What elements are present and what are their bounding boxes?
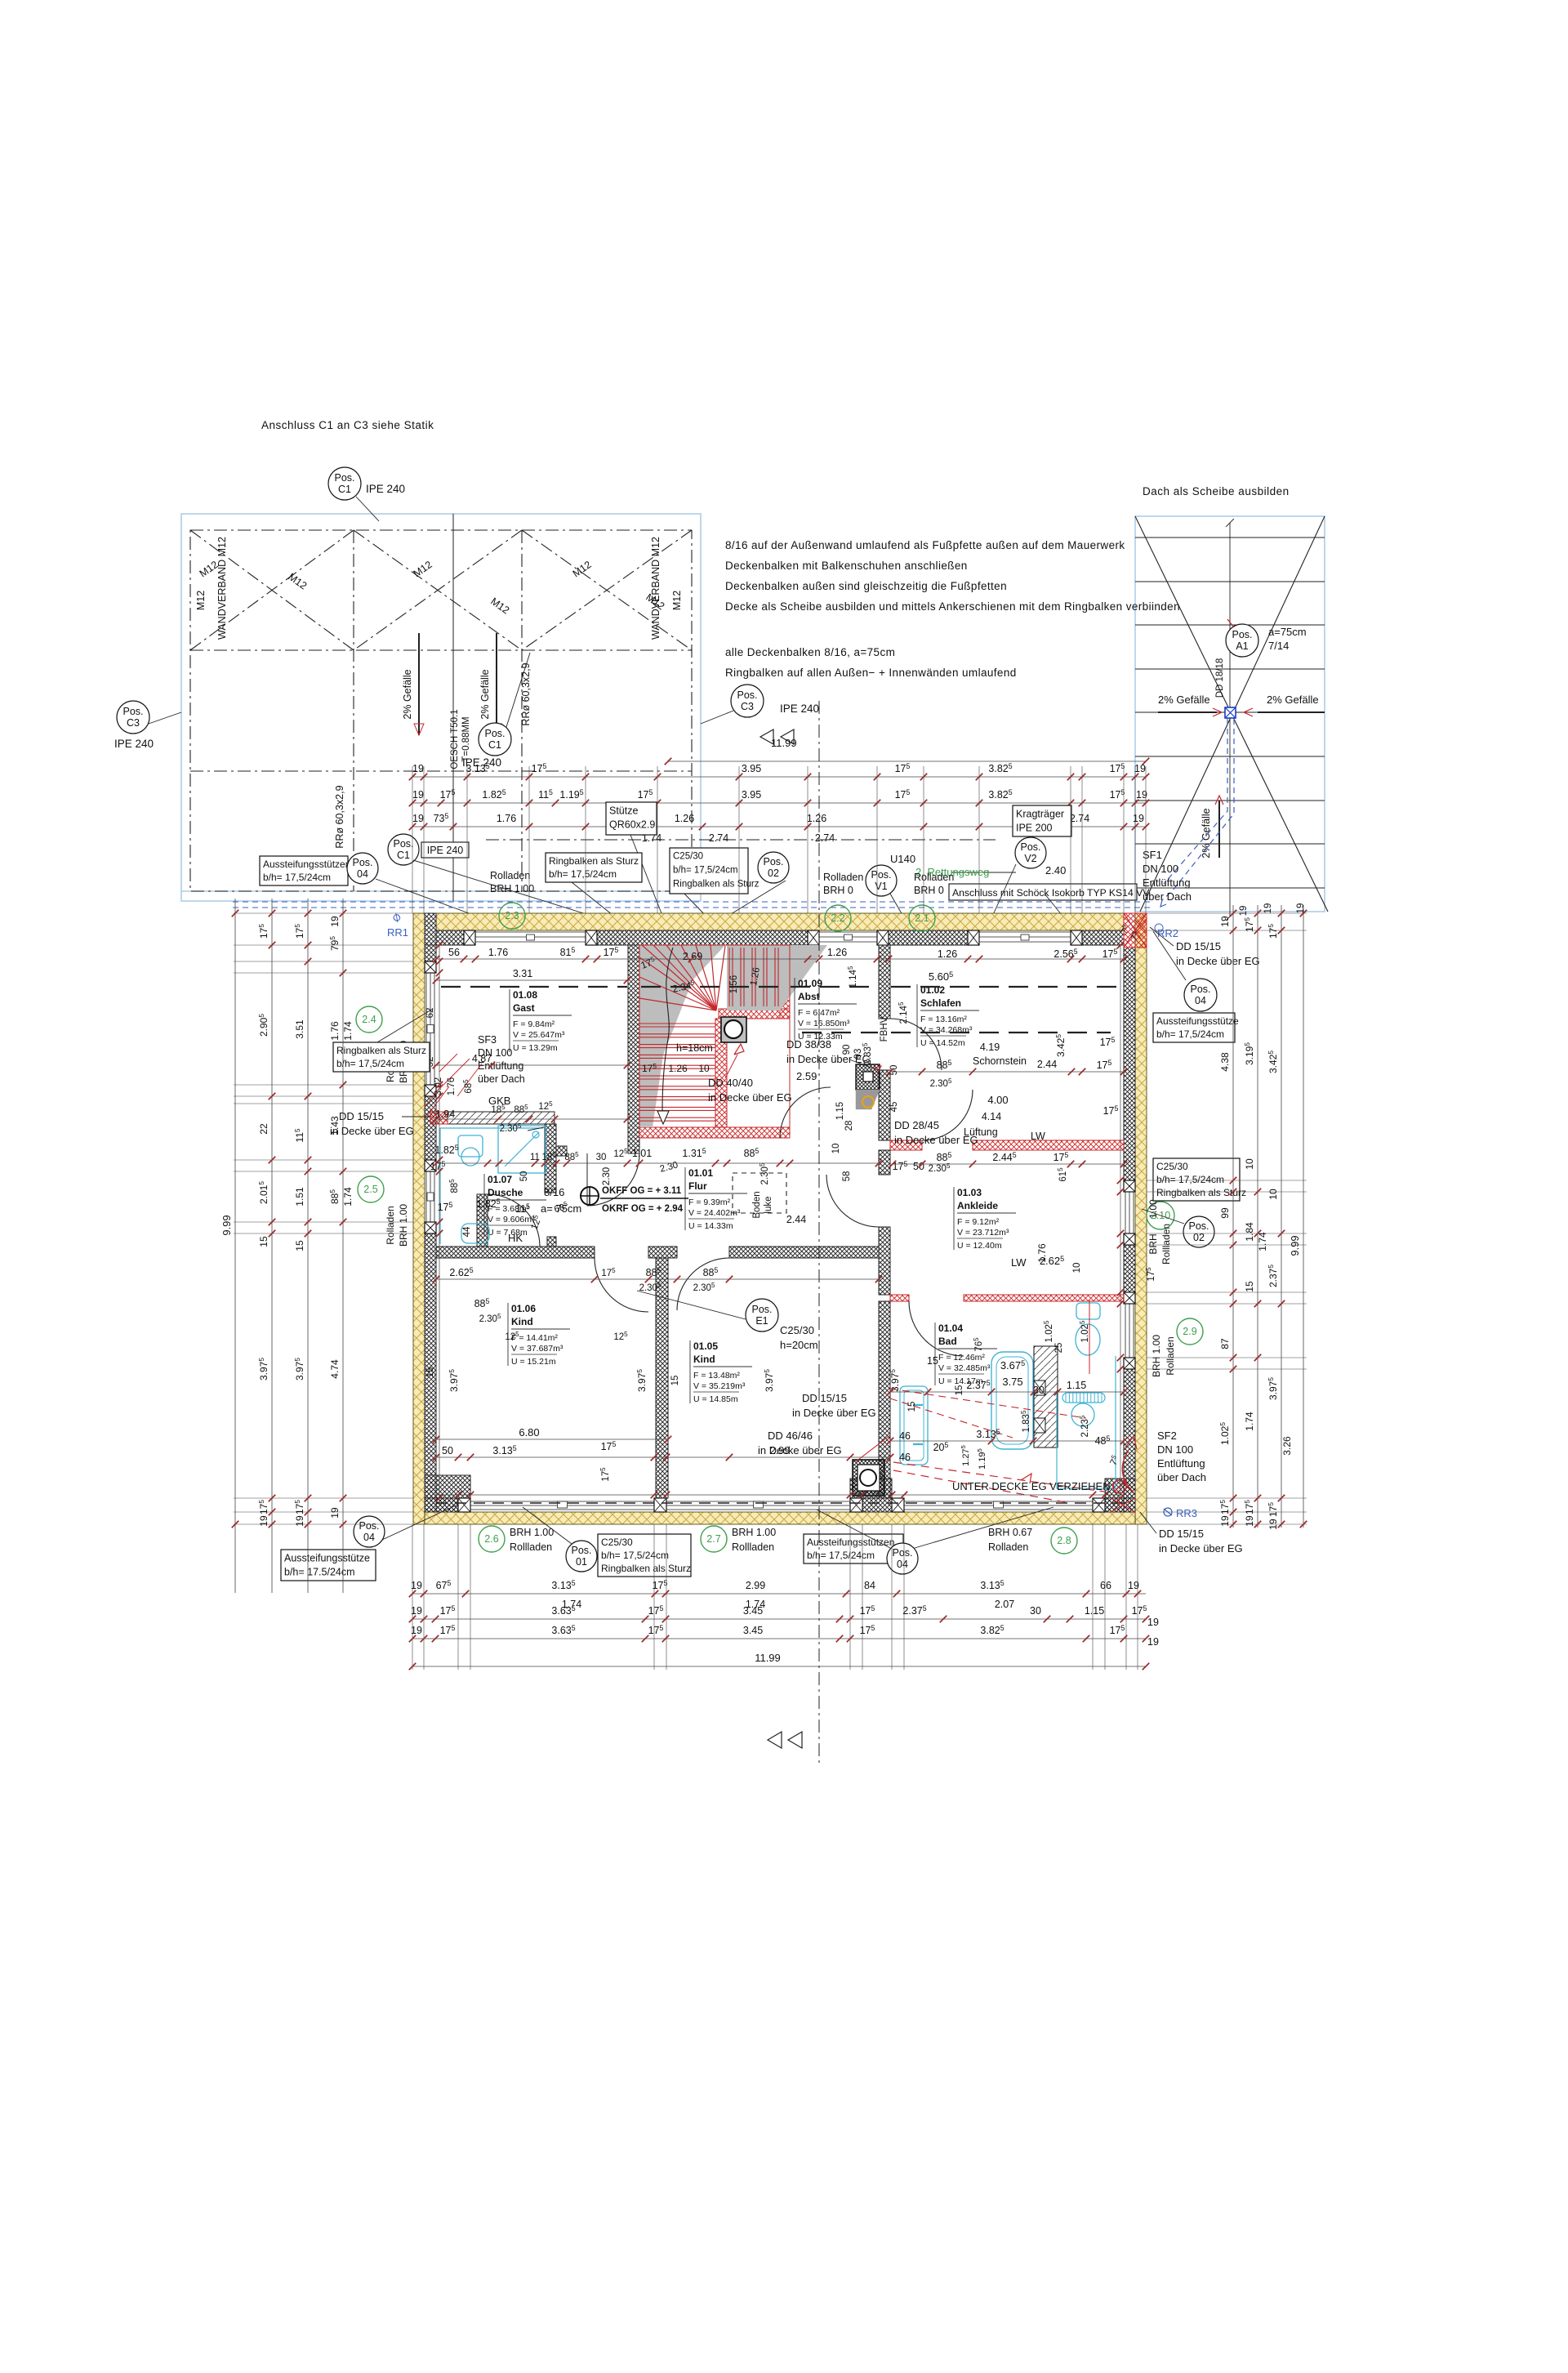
svg-text:OKRF OG = + 2.94: OKRF OG = + 2.94 — [602, 1204, 684, 1214]
svg-text:1.00: 1.00 — [1147, 1199, 1159, 1219]
extension lines top — [412, 766, 413, 913]
svg-text:1.76: 1.76 — [497, 813, 516, 824]
Kragtraeger box — [1013, 805, 1071, 836]
top wall small red corner marks — [1135, 920, 1147, 933]
svg-text:alle Deckenbalken 8/16, a=75cm: alle Deckenbalken 8/16, a=75cm — [725, 646, 895, 658]
svg-text:F = 9.12m²: F = 9.12m² — [957, 1217, 1000, 1227]
wall Bad/Kind vertical — [879, 1301, 890, 1498]
Dusche washbasin — [461, 1224, 489, 1243]
bottom dim chains — [412, 1593, 1146, 1595]
extension lines bottom — [412, 1524, 413, 1670]
svg-text:19: 19 — [411, 1625, 422, 1636]
svg-text:BRH 1.00: BRH 1.00 — [732, 1527, 776, 1538]
svg-text:Aussteifungsstützen: Aussteifungsstützen — [807, 1537, 894, 1548]
svg-text:Boden: Boden — [752, 1191, 762, 1218]
svg-text:19: 19 — [411, 1605, 422, 1617]
chimney Schornstein — [856, 1064, 880, 1090]
svg-text:15: 15 — [425, 1367, 435, 1378]
svg-text:Aussteifungsstütze: Aussteifungsstütze — [1156, 1015, 1239, 1027]
svg-text:DD 38/38: DD 38/38 — [786, 1038, 831, 1050]
svg-text:V = 35.219m³: V = 35.219m³ — [693, 1381, 746, 1391]
svg-text:2.74: 2.74 — [1070, 813, 1089, 824]
svg-text:Pos.: Pos. — [763, 856, 783, 868]
SF2 red riser — [1122, 1450, 1134, 1492]
red DD block left wall — [430, 1112, 448, 1124]
Bodenluke dashed — [733, 1173, 786, 1213]
svg-text:DN 100: DN 100 — [1143, 863, 1178, 875]
interior dim line: top wall inner — [436, 958, 1124, 960]
OKFF marker — [581, 1187, 599, 1205]
svg-text:Ringbalken als Sturz: Ringbalken als Sturz — [336, 1045, 426, 1056]
svg-text:DD 46/46: DD 46/46 — [768, 1430, 813, 1442]
svg-text:8/16 auf der Außenwand umlaufe: 8/16 auf der Außenwand umlaufend als Fuß… — [725, 539, 1125, 551]
svg-text:87: 87 — [1219, 1338, 1231, 1349]
wall Abst/Schlafen — [879, 945, 890, 1019]
svg-text:11.99: 11.99 — [771, 737, 797, 749]
left boxes row — [260, 856, 348, 885]
svg-text:Pos.: Pos. — [892, 1547, 912, 1559]
svg-text:2.30: 2.30 — [602, 1167, 612, 1185]
svg-text:WANDVERBAND M12: WANDVERBAND M12 — [650, 537, 661, 640]
svg-text:2% Gefälle: 2% Gefälle — [1158, 694, 1210, 706]
interior dim line: Dusche/Flur row — [436, 1162, 879, 1164]
gefaelle arrows left roof — [418, 633, 420, 735]
svg-text:in Decke über EG: in Decke über EG — [330, 1125, 414, 1137]
svg-text:01.06: 01.06 — [511, 1303, 536, 1314]
svg-text:F = 9.84m²: F = 9.84m² — [513, 1019, 555, 1029]
svg-text:QR60x2.9: QR60x2.9 — [609, 819, 655, 831]
svg-text:Kragträger: Kragträger — [1016, 809, 1064, 820]
svg-text:h=18cm: h=18cm — [676, 1042, 713, 1054]
left wall masonry segments — [425, 945, 436, 961]
interior vertical dim lines near walls — [439, 945, 440, 1498]
Pos C1 top circle — [328, 467, 361, 500]
right roof light blue frame — [1135, 516, 1325, 912]
svg-text:h=20cm: h=20cm — [780, 1339, 818, 1351]
bottom wall interior dashed line — [436, 1502, 1124, 1504]
svg-text:2.6: 2.6 — [484, 1533, 498, 1545]
right roof centre line — [1229, 523, 1231, 917]
svg-text:U = 13.29m: U = 13.29m — [513, 1043, 558, 1053]
svg-text:19: 19 — [1267, 1519, 1279, 1530]
svg-text:Deckenbalken außen sind gleisc: Deckenbalken außen sind gleischzeitig di… — [725, 580, 1007, 592]
stair grey landing polygons — [639, 945, 725, 1127]
svg-text:22: 22 — [258, 1123, 269, 1135]
svg-text:BRH 1.00: BRH 1.00 — [398, 1204, 409, 1247]
section marker top — [760, 729, 773, 744]
svg-text:3.45: 3.45 — [743, 1605, 763, 1617]
svg-text:56: 56 — [448, 947, 460, 958]
svg-text:3.26: 3.26 — [1281, 1436, 1293, 1456]
exterior wall: bottom insulation band — [425, 1512, 1135, 1524]
DD46/46 drain square — [853, 1460, 884, 1496]
svg-text:2.44: 2.44 — [786, 1214, 806, 1225]
svg-text:DD 18/18: DD 18/18 — [1215, 658, 1225, 698]
svg-text:F = 9.39m²: F = 9.39m² — [688, 1198, 731, 1207]
wandverband X bracing diagonals M12 — [190, 530, 354, 650]
stair right wall (red) — [780, 945, 790, 1019]
right dim chains — [1232, 905, 1234, 1528]
svg-text:2.2: 2.2 — [831, 912, 844, 924]
stair outline red — [639, 945, 790, 1138]
svg-text:2.1: 2.1 — [915, 912, 929, 924]
svg-text:SF1: SF1 — [1143, 849, 1162, 861]
chimney shadow — [856, 1090, 880, 1109]
dash-dot line under top dims — [486, 839, 996, 841]
svg-text:Rolladen: Rolladen — [988, 1541, 1028, 1553]
svg-text:19: 19 — [1128, 1580, 1139, 1591]
svg-text:4.14: 4.14 — [982, 1111, 1001, 1122]
svg-text:Pos.: Pos. — [122, 706, 143, 717]
svg-text:IPE 240: IPE 240 — [114, 738, 154, 750]
svg-text:28: 28 — [844, 1121, 854, 1131]
svg-text:V = 37.687m³: V = 37.687m³ — [511, 1344, 563, 1354]
door arc top (Abst entry) — [667, 945, 729, 1007]
Ringbalken als Sturz box (top mid) — [546, 853, 642, 882]
svg-text:SF3: SF3 — [478, 1034, 497, 1046]
svg-text:RRø 60,3x2,9: RRø 60,3x2,9 — [334, 785, 345, 848]
top dim row 1 — [412, 776, 1146, 778]
svg-text:BRH 0: BRH 0 — [823, 885, 853, 896]
svg-text:15: 15 — [955, 1385, 964, 1396]
window jambs left wall — [425, 961, 436, 973]
window glazing top wall — [475, 931, 586, 933]
svg-text:Ankleide: Ankleide — [957, 1200, 998, 1211]
svg-text:10: 10 — [1072, 1263, 1082, 1273]
wall Schlafen/Ankleide (red LW) — [890, 1140, 922, 1150]
svg-text:15: 15 — [927, 1355, 938, 1367]
svg-text:b/h= 17,5/24cm: b/h= 17,5/24cm — [263, 872, 331, 883]
exterior wall: right insulation band — [1135, 913, 1147, 1524]
svg-text:über Dach: über Dach — [478, 1073, 525, 1085]
blue dashed drain riser SF1 — [1162, 719, 1234, 900]
svg-text:RR3: RR3 — [1176, 1507, 1197, 1519]
svg-text:Ringbalken als Sturz: Ringbalken als Sturz — [549, 855, 639, 867]
door arc Ankleide (wall E) — [826, 1175, 879, 1227]
Bad bathtub — [991, 1352, 1033, 1449]
svg-text:2.7: 2.7 — [706, 1533, 720, 1545]
svg-text:BRH: BRH — [1147, 1233, 1159, 1254]
stair upper run steps (red) — [728, 948, 730, 1006]
svg-text:4.87: 4.87 — [472, 1053, 492, 1064]
svg-text:93: 93 — [853, 1049, 863, 1059]
svg-text:3.45: 3.45 — [743, 1625, 763, 1636]
svg-text:2.59: 2.59 — [796, 1070, 817, 1082]
svg-text:01.04: 01.04 — [938, 1323, 963, 1334]
svg-text:15: 15 — [258, 1236, 269, 1247]
svg-text:6.80: 6.80 — [519, 1426, 539, 1439]
red dashed leaders Kind — [890, 1389, 1086, 1418]
svg-text:Bad: Bad — [938, 1336, 957, 1347]
svg-text:C25/30: C25/30 — [780, 1324, 814, 1336]
svg-text:Rolladen: Rolladen — [1165, 1336, 1176, 1375]
svg-text:02: 02 — [768, 868, 779, 879]
stair lower run steps (red) — [639, 1023, 715, 1024]
svg-text:RR2: RR2 — [1157, 927, 1178, 939]
svg-text:luke: luke — [764, 1196, 773, 1213]
left roof vertical grid dash-dot lines — [353, 530, 354, 891]
corner masonry blocks — [425, 1475, 470, 1512]
svg-text:über Dach: über Dach — [1143, 890, 1192, 903]
svg-text:b/h= 17,5/24cm: b/h= 17,5/24cm — [673, 866, 738, 876]
svg-text:19: 19 — [411, 1580, 422, 1591]
Pos A1 circle — [1226, 624, 1258, 657]
svg-text:90: 90 — [842, 1045, 852, 1055]
Pos C1 mid circle — [479, 723, 511, 756]
svg-text:11: 11 — [530, 1153, 540, 1162]
svg-text:19: 19 — [1263, 903, 1273, 914]
red seam left of lower stair run — [715, 1019, 727, 1127]
svg-text:19: 19 — [329, 916, 341, 927]
svg-text:C25/30: C25/30 — [673, 852, 703, 862]
Bad shower tray — [900, 1386, 928, 1465]
leaders top wall — [727, 881, 786, 917]
svg-text:C25/30: C25/30 — [601, 1537, 633, 1548]
svg-text:04: 04 — [357, 868, 368, 880]
svg-text:Pos.: Pos. — [1188, 1220, 1209, 1232]
window jambs top wall — [464, 930, 475, 945]
Bad partition stub hatched — [1034, 1346, 1058, 1447]
svg-text:Pos.: Pos. — [484, 728, 505, 739]
svg-text:Stütze: Stütze — [609, 805, 638, 817]
svg-text:Schornstein: Schornstein — [973, 1055, 1027, 1067]
orange ring — [862, 1096, 874, 1108]
svg-text:OKFF OG = + 3.11: OKFF OG = + 3.11 — [602, 1186, 682, 1196]
door arc Schlafen (from Flur) — [890, 1019, 942, 1070]
svg-text:19: 19 — [1296, 903, 1306, 914]
svg-text:C1: C1 — [397, 850, 410, 861]
svg-text:in Decke über EG: in Decke über EG — [1176, 955, 1260, 967]
svg-text:a=75cm: a=75cm — [1268, 626, 1307, 638]
svg-text:UNTER DECKE EG VERZIEHEN: UNTER DECKE EG VERZIEHEN — [952, 1480, 1111, 1492]
window glazing left wall — [425, 973, 427, 1085]
GKB wall above Dusche — [436, 1112, 555, 1124]
Anschluss Isokorb box — [949, 884, 1137, 900]
svg-text:2% Gefälle: 2% Gefälle — [1267, 694, 1319, 706]
top dim row 2 — [412, 802, 1146, 804]
svg-text:19: 19 — [412, 813, 424, 824]
section line vertical — [818, 701, 820, 1764]
svg-text:1.84: 1.84 — [1244, 1222, 1255, 1242]
svg-text:BRH 0.67: BRH 0.67 — [988, 1527, 1032, 1538]
svg-text:04: 04 — [897, 1559, 908, 1570]
interior dim line: Gast rows — [436, 979, 627, 981]
top wall masonry segments — [436, 930, 464, 945]
svg-text:Pos.: Pos. — [334, 472, 354, 484]
svg-text:1.26: 1.26 — [675, 813, 694, 824]
svg-text:3.51: 3.51 — [294, 1019, 305, 1039]
svg-text:01.01: 01.01 — [688, 1167, 713, 1179]
svg-text:2.5: 2.5 — [363, 1184, 377, 1195]
leaders SF3 — [439, 1054, 482, 1096]
interior dim line: Ankleide row — [893, 1163, 1124, 1165]
svg-text:E1: E1 — [755, 1315, 768, 1327]
Dusche right wall — [545, 1124, 556, 1193]
top dim row 3 — [412, 826, 1146, 827]
svg-text:Rollladen: Rollladen — [510, 1541, 552, 1553]
left roof bracing band bottom chord — [190, 649, 692, 651]
green window codes — [499, 903, 525, 929]
svg-text:19: 19 — [1239, 906, 1249, 917]
svg-text:V = 16.850m³: V = 16.850m³ — [798, 1019, 850, 1028]
svg-text:DD 15/15: DD 15/15 — [1159, 1528, 1204, 1540]
exterior wall: top insulation band — [436, 913, 1124, 930]
svg-text:19: 19 — [1134, 763, 1146, 774]
Pos E1 — [746, 1299, 778, 1331]
svg-text:19: 19 — [294, 1515, 305, 1527]
svg-text:DD 15/15: DD 15/15 — [1176, 940, 1221, 952]
svg-text:2.07: 2.07 — [995, 1599, 1014, 1610]
svg-text:V = 9.606m³: V = 9.606m³ — [488, 1215, 535, 1224]
svg-text:Pos.: Pos. — [359, 1520, 379, 1532]
svg-text:Rolladen: Rolladen — [385, 1206, 396, 1244]
dashed beam line y1208 — [441, 986, 627, 988]
svg-text:2.99: 2.99 — [746, 1580, 765, 1591]
Bad WC — [1076, 1303, 1100, 1319]
svg-text:DD 28/45: DD 28/45 — [894, 1119, 939, 1131]
svg-text:9.99: 9.99 — [220, 1215, 233, 1235]
svg-text:M12: M12 — [671, 591, 683, 610]
svg-text:1.15: 1.15 — [1067, 1380, 1086, 1391]
svg-text:in Decke über EG: in Decke über EG — [758, 1444, 842, 1456]
svg-text:V = 32.485m³: V = 32.485m³ — [938, 1363, 991, 1373]
svg-text:b/h= 17,5/24cm: b/h= 17,5/24cm — [549, 868, 617, 880]
svg-text:2% Gefälle: 2% Gefälle — [479, 669, 491, 719]
left roof mid horizontal dash-dot — [190, 770, 692, 772]
svg-text:Abst: Abst — [798, 991, 820, 1002]
svg-text:15: 15 — [294, 1240, 305, 1251]
svg-text:F = 13.16m²: F = 13.16m² — [920, 1015, 967, 1024]
Pos 02 circle + box (top) — [758, 852, 789, 883]
svg-text:U = 14.52m: U = 14.52m — [920, 1038, 965, 1048]
svg-text:2.3: 2.3 — [505, 910, 519, 921]
svg-text:2.74: 2.74 — [709, 832, 728, 844]
svg-text:19: 19 — [412, 763, 424, 774]
svg-text:1.74: 1.74 — [342, 1021, 354, 1041]
svg-text:04: 04 — [1195, 995, 1206, 1006]
svg-text:b/h= 17.5/24cm: b/h= 17.5/24cm — [284, 1567, 355, 1578]
left roof bracing field: outer light blue frame — [181, 514, 701, 901]
svg-text:BRH 1.00: BRH 1.00 — [490, 883, 534, 894]
svg-text:19: 19 — [329, 1507, 341, 1519]
Bad red dashed UNTER DECKE lines — [893, 1462, 1104, 1492]
svg-text:V1: V1 — [875, 881, 887, 892]
svg-text:DD 15/15: DD 15/15 — [802, 1392, 847, 1404]
interior dim line: mid row 1566 — [436, 1278, 879, 1280]
svg-text:V = 25.647m³: V = 25.647m³ — [513, 1030, 565, 1040]
svg-text:19: 19 — [1133, 813, 1144, 824]
left boxes: Ringbalken als Sturz — [333, 1042, 430, 1072]
svg-text:Rollladen: Rollladen — [732, 1541, 774, 1553]
svg-text:Deckenbalken mit Balkenschuhen: Deckenbalken mit Balkenschuhen anschließ… — [725, 560, 968, 572]
window glazing bottom wall — [470, 1501, 654, 1502]
svg-text:Pos.: Pos. — [1232, 629, 1252, 640]
svg-text:Rolladen: Rolladen — [914, 872, 954, 883]
svg-text:3.95: 3.95 — [742, 789, 761, 801]
Flur bottom wall segments — [436, 1247, 595, 1258]
svg-text:10: 10 — [1267, 1189, 1279, 1200]
svg-text:25: 25 — [1054, 1343, 1064, 1354]
red arrow near DD40/40 — [734, 1044, 744, 1055]
svg-text:8/16: 8/16 — [544, 1186, 564, 1198]
svg-text:1.94: 1.94 — [435, 1108, 455, 1120]
svg-text:C1: C1 — [338, 484, 351, 495]
svg-text:M12: M12 — [195, 591, 207, 610]
svg-text:V = 34.268m³: V = 34.268m³ — [920, 1025, 973, 1035]
svg-text:10: 10 — [1244, 1158, 1255, 1170]
C25/30 box right — [1153, 1158, 1240, 1201]
svg-text:4.74: 4.74 — [329, 1359, 341, 1379]
svg-text:Kind: Kind — [693, 1354, 715, 1365]
DD40/40 drain square — [721, 1017, 746, 1042]
roof drain DD 18/18 — [1225, 707, 1236, 718]
svg-text:84: 84 — [864, 1580, 875, 1591]
extension lines left — [234, 912, 413, 914]
svg-text:in Decke über EG: in Decke über EG — [792, 1407, 876, 1419]
svg-text:LW: LW — [1031, 1131, 1045, 1142]
svg-text:4.19: 4.19 — [980, 1042, 1000, 1053]
svg-text:Pos.: Pos. — [393, 838, 413, 850]
svg-text:IPE 200: IPE 200 — [1016, 823, 1053, 834]
svg-text:U = 15.21m: U = 15.21m — [511, 1357, 556, 1367]
svg-text:1.43: 1.43 — [329, 1116, 341, 1135]
svg-text:1.76: 1.76 — [447, 1077, 457, 1095]
svg-text:2.4: 2.4 — [362, 1014, 376, 1025]
svg-text:Pos.: Pos. — [737, 689, 757, 701]
svg-text:1.26: 1.26 — [827, 947, 847, 958]
svg-text:1.76: 1.76 — [329, 1021, 341, 1041]
svg-text:Pos.: Pos. — [352, 857, 372, 868]
Bad washbasin — [1071, 1403, 1094, 1426]
svg-text:3.95: 3.95 — [742, 763, 761, 774]
svg-text:RR1: RR1 — [387, 926, 408, 939]
red seam bottom of stair — [639, 1127, 790, 1138]
svg-text:19: 19 — [1219, 916, 1231, 927]
section marker bottom — [768, 1732, 782, 1748]
svg-text:V = 23.712m³: V = 23.712m³ — [957, 1228, 1009, 1238]
bottom wall masonry segments — [436, 1498, 458, 1512]
svg-text:19: 19 — [258, 1515, 269, 1527]
svg-text:IPE 240: IPE 240 — [780, 703, 819, 715]
Pos C3 right circle — [731, 685, 764, 717]
bottom boxes — [566, 1541, 597, 1572]
svg-text:1.15: 1.15 — [1085, 1605, 1104, 1617]
bottom-left pos04 + box — [354, 1516, 385, 1547]
svg-text:b/h= 17,5/24cm: b/h= 17,5/24cm — [601, 1550, 669, 1561]
stair walk line — [662, 948, 673, 1111]
svg-text:T=0.88MM: T=0.88MM — [461, 716, 471, 761]
extension lines right — [1147, 912, 1307, 914]
door arcs Kind rooms — [595, 1258, 648, 1312]
svg-text:BRH 1.00: BRH 1.00 — [510, 1527, 554, 1538]
svg-text:1.26: 1.26 — [807, 813, 826, 824]
svg-text:15: 15 — [1244, 1281, 1255, 1292]
svg-text:3.75: 3.75 — [1002, 1376, 1022, 1388]
svg-text:Lüftung: Lüftung — [964, 1126, 998, 1138]
svg-text:Pos.: Pos. — [871, 869, 891, 881]
right roof rafter lines — [1135, 537, 1325, 538]
svg-text:10: 10 — [831, 1144, 841, 1154]
svg-text:46: 46 — [899, 1430, 911, 1442]
svg-text:2.69: 2.69 — [683, 951, 702, 962]
svg-text:01.05: 01.05 — [693, 1340, 718, 1352]
C25/30 box top — [670, 848, 748, 894]
svg-text:1.01: 1.01 — [632, 1148, 652, 1159]
svg-text:19: 19 — [412, 789, 424, 801]
svg-text:U140: U140 — [890, 853, 915, 865]
Pos 04 right + box — [1184, 979, 1217, 1011]
door arc Bad — [909, 1301, 964, 1356]
